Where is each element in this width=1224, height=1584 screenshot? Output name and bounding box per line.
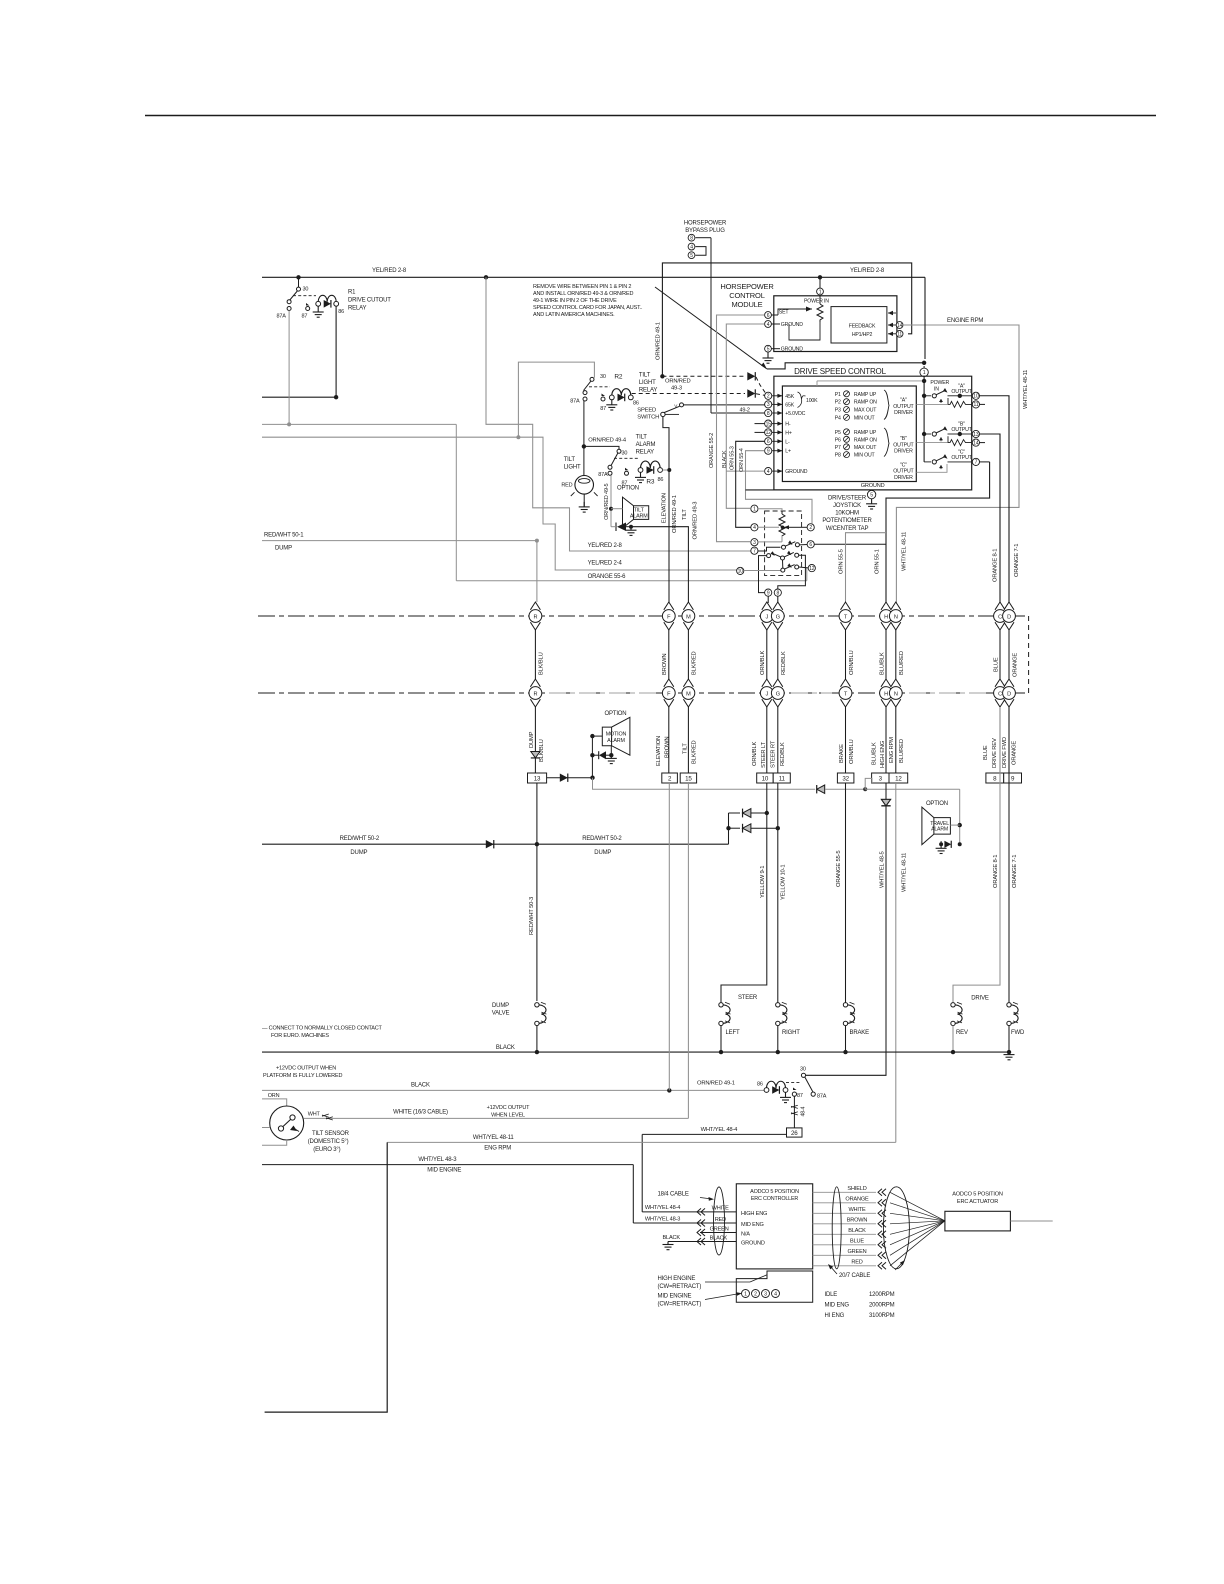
svg-text:7: 7 xyxy=(753,549,756,555)
terminal box 15 xyxy=(680,773,696,783)
page top rule xyxy=(145,115,1156,117)
wire ERC WHITE xyxy=(813,1212,876,1214)
svg-text:OUTPUT: OUTPUT xyxy=(951,427,972,433)
svg-text:86: 86 xyxy=(757,1082,763,1088)
wire WHT/YEL 48-4 into box 26 xyxy=(642,1133,786,1135)
node ORN/RED 49-4 xyxy=(582,444,586,448)
svg-text:DUMP: DUMP xyxy=(529,731,535,748)
svg-text:6: 6 xyxy=(809,542,812,548)
svg-text:BLUE: BLUE xyxy=(983,745,989,760)
harness row 1 dash-dot line xyxy=(258,615,1029,617)
svg-text:15: 15 xyxy=(766,421,772,427)
svg-text:TILT: TILT xyxy=(564,457,576,463)
svg-text:"A": "A" xyxy=(900,398,907,404)
svg-text:WHT/YEL 48-11: WHT/YEL 48-11 xyxy=(473,1135,515,1141)
svg-text:N: N xyxy=(894,614,898,620)
svg-text:GROUND: GROUND xyxy=(785,469,807,475)
svg-text:WHT/YEL 48-5: WHT/YEL 48-5 xyxy=(879,851,885,888)
svg-text:DUMP: DUMP xyxy=(275,546,292,552)
pin 12 DSC xyxy=(765,429,772,436)
pin 4 HP (GROUND) xyxy=(765,321,772,328)
svg-text:VALVE: VALVE xyxy=(492,1011,510,1017)
pin 6 HP (SET) xyxy=(765,312,772,319)
connector T row2 xyxy=(841,679,851,687)
svg-text:ORANGE: ORANGE xyxy=(1012,741,1018,765)
svg-text:TILT: TILT xyxy=(682,509,688,520)
diode H wire xyxy=(881,799,890,805)
wire N down to eng rpm line xyxy=(895,783,897,1142)
connector G row2 xyxy=(773,679,783,687)
svg-text:LEFT: LEFT xyxy=(726,1030,740,1036)
svg-text:YEL/RED 2-8: YEL/RED 2-8 xyxy=(588,543,623,549)
svg-text:WHT/YEL 48-11: WHT/YEL 48-11 xyxy=(902,853,908,892)
svg-text:POWER: POWER xyxy=(930,380,949,386)
output C circle 7 xyxy=(972,458,979,465)
svg-text:J: J xyxy=(765,691,768,697)
node option rail / terminal3 xyxy=(863,787,867,791)
svg-text:MAX OUT: MAX OUT xyxy=(854,408,877,414)
feedback in arrows xyxy=(888,312,896,314)
connector H row2 xyxy=(881,679,891,687)
svg-text:(EURO 3°): (EURO 3°) xyxy=(313,1147,340,1153)
resistor A feedback xyxy=(948,401,972,407)
svg-text:20/7 CABLE: 20/7 CABLE xyxy=(839,1273,870,1279)
steer left coil xyxy=(719,1003,723,1007)
svg-text:OUTPUT: OUTPUT xyxy=(893,442,914,448)
terminal box 8 9 xyxy=(986,773,1004,783)
svg-text:R1: R1 xyxy=(348,290,356,296)
svg-text:RED: RED xyxy=(851,1260,862,1266)
node junction bus x486 xyxy=(484,275,488,279)
svg-text:6: 6 xyxy=(767,313,770,319)
svg-text:BLACK: BLACK xyxy=(710,1235,728,1241)
svg-text:G: G xyxy=(776,614,780,620)
brace B group xyxy=(884,428,889,457)
svg-text:DUMP: DUMP xyxy=(594,850,611,856)
svg-text:BLACK: BLACK xyxy=(496,1045,515,1051)
svg-text:CONTROL: CONTROL xyxy=(729,291,764,300)
pin 3 DSC xyxy=(765,401,772,408)
svg-text:— CONNECT TO NORMALLY CLOSED C: — CONNECT TO NORMALLY CLOSED CONTACT xyxy=(262,1026,383,1032)
svg-text:15: 15 xyxy=(685,775,692,782)
drive speed control inner box xyxy=(782,386,916,482)
svg-text:14: 14 xyxy=(897,323,903,329)
svg-text:(CW=RETRACT): (CW=RETRACT) xyxy=(658,1284,702,1290)
svg-text:ORN/RED 49-3: ORN/RED 49-3 xyxy=(692,502,698,540)
svg-text:ORN/RED 49-4: ORN/RED 49-4 xyxy=(588,438,627,444)
svg-text:DRIVER: DRIVER xyxy=(894,449,913,455)
svg-text:"B": "B" xyxy=(900,436,907,442)
wire pin4 to pot wiper xyxy=(758,526,779,528)
terminal box 32 xyxy=(837,773,854,783)
svg-text:N: N xyxy=(894,691,898,697)
wire ENGINE RPM from pin14 xyxy=(896,325,1019,603)
svg-text:P7: P7 xyxy=(835,445,841,451)
svg-text:FWD: FWD xyxy=(1011,1030,1025,1036)
svg-text:9: 9 xyxy=(767,590,770,596)
wires row2 down to terminal boxes xyxy=(534,707,536,773)
svg-text:BLACK: BLACK xyxy=(848,1228,866,1234)
diode steer left xyxy=(743,809,751,818)
svg-text:RED: RED xyxy=(715,1217,726,1223)
svg-text:OUTPUT: OUTPUT xyxy=(893,469,914,475)
svg-text:P4: P4 xyxy=(835,415,841,421)
connector F row1 xyxy=(664,602,674,610)
wire joystick6 from H-driver xyxy=(814,543,886,545)
svg-text:BLACK: BLACK xyxy=(411,1082,430,1088)
connector N row2 xyxy=(891,679,901,687)
svg-text:12: 12 xyxy=(766,430,772,436)
svg-text:WHT: WHT xyxy=(308,1112,321,1118)
svg-text:87A: 87A xyxy=(570,398,580,404)
svg-text:RELAY: RELAY xyxy=(348,306,367,312)
svg-text:D: D xyxy=(1007,614,1011,620)
svg-text:SPEED CONTROL CARD FOR JAPAN,: SPEED CONTROL CARD FOR JAPAN, AUST.. xyxy=(533,305,643,311)
svg-text:G: G xyxy=(776,691,780,697)
ground motion alarm xyxy=(606,755,617,763)
svg-text:ORN/RED 49-1: ORN/RED 49-1 xyxy=(672,495,678,533)
svg-text:8: 8 xyxy=(776,590,779,596)
svg-text:ENGINE RPM: ENGINE RPM xyxy=(947,318,983,324)
terminal box 3 12 xyxy=(872,773,889,783)
wire box13 to motion alarm xyxy=(547,777,593,779)
svg-text:GROUND: GROUND xyxy=(861,483,885,489)
svg-text:ORN 55-5: ORN 55-5 xyxy=(839,549,845,574)
svg-text:POTENTIOMETER: POTENTIOMETER xyxy=(822,518,872,524)
svg-text:BLACK: BLACK xyxy=(722,450,728,468)
harness row right dashed jog xyxy=(1028,616,1030,693)
node dump junction xyxy=(535,842,539,846)
joystick pin 10 xyxy=(737,567,744,574)
pin 15/12 stubs xyxy=(755,423,765,425)
svg-text:RED/BLK: RED/BLK xyxy=(780,742,786,766)
joystick pin 12 xyxy=(808,565,815,572)
ground R3 xyxy=(635,472,646,482)
svg-text:OPTION: OPTION xyxy=(926,801,948,807)
cable ellipse right pair xyxy=(832,1187,841,1269)
svg-text:5: 5 xyxy=(870,492,873,498)
svg-text:LIGHT: LIGHT xyxy=(639,380,656,386)
svg-text:49-1 WIRE IN PIN 2 OF THE DRIV: 49-1 WIRE IN PIN 2 OF THE DRIVE xyxy=(533,298,617,304)
svg-text:ELEVATION: ELEVATION xyxy=(662,493,668,523)
svg-text:2: 2 xyxy=(754,1292,757,1298)
joystick potentiometer xyxy=(779,514,785,539)
svg-text:OPTION: OPTION xyxy=(605,711,627,717)
ground R1 xyxy=(313,306,324,317)
wire ERC ORANGE xyxy=(813,1202,876,1204)
svg-text:5: 5 xyxy=(690,253,693,259)
wire pin1 to pot top xyxy=(758,509,782,511)
svg-text:ORN/BLK: ORN/BLK xyxy=(752,741,758,766)
wire to lower diode xyxy=(729,827,741,829)
wire travel alarm feed xyxy=(959,789,961,844)
wire H down to bottom relay xyxy=(885,783,887,799)
svg-text:10: 10 xyxy=(762,775,769,782)
pin 5 HP (GROUND) xyxy=(765,345,772,352)
feedback box HP1/HP2 xyxy=(831,307,887,343)
svg-text:ORN 55-4: ORN 55-4 xyxy=(739,448,745,472)
wire M down to tilt sensor xyxy=(687,783,689,1118)
svg-text:YELLOW 9-1: YELLOW 9-1 xyxy=(760,866,766,898)
svg-text:86: 86 xyxy=(338,309,344,315)
pin 4 DSC xyxy=(765,468,772,475)
node speed relay branch xyxy=(516,435,520,439)
svg-text:RELAY: RELAY xyxy=(636,450,655,456)
svg-text:TILT: TILT xyxy=(636,435,648,441)
svg-text:ORANGE 7-1: ORANGE 7-1 xyxy=(1012,855,1018,888)
pin 15 DSC xyxy=(765,420,772,427)
bottom relay coil xyxy=(767,1081,786,1088)
svg-text:1: 1 xyxy=(923,370,926,376)
svg-text:65K: 65K xyxy=(785,402,794,408)
svg-text:MIN OUT: MIN OUT xyxy=(854,415,876,421)
svg-text:13: 13 xyxy=(534,775,541,782)
svg-text:3100RPM: 3100RPM xyxy=(869,1313,895,1319)
wire output10 down to D connector xyxy=(1008,396,1009,603)
ground BLACK bus xyxy=(1007,1050,1011,1054)
svg-text:1: 1 xyxy=(753,507,756,513)
connector R row2 xyxy=(530,679,540,687)
svg-text:ORANGE 55-2: ORANGE 55-2 xyxy=(709,433,715,468)
wire 49-2 speed switch to pin3 xyxy=(684,404,765,406)
pin 8 DSC xyxy=(765,409,772,416)
svg-text:P1: P1 xyxy=(835,392,841,398)
wire output13 down to C connector xyxy=(999,434,1002,603)
wire to R1-86 from left margin xyxy=(262,396,336,398)
svg-text:WHT/YEL 48-3: WHT/YEL 48-3 xyxy=(418,1157,457,1163)
svg-text:STEER: STEER xyxy=(738,995,758,1001)
svg-text:13: 13 xyxy=(973,432,979,438)
svg-text:BRAKE: BRAKE xyxy=(850,1030,870,1036)
fan wires to actuator xyxy=(890,1192,945,1221)
svg-text:GREEN: GREEN xyxy=(710,1226,729,1232)
svg-text:4: 4 xyxy=(753,525,756,531)
note leader diagonal xyxy=(655,287,767,369)
diode after box13 xyxy=(560,774,568,782)
DSC power rail xyxy=(923,377,925,462)
wire J yellow9-1 down to steer left xyxy=(721,783,767,1003)
svg-text:TILT SENSOR: TILT SENSOR xyxy=(312,1131,350,1137)
horsepower control module box U-HP xyxy=(774,296,897,352)
drive fwd coil xyxy=(1007,1003,1011,1007)
svg-text:ORN/RED 49-1: ORN/RED 49-1 xyxy=(697,1081,735,1087)
svg-text:BLK/RED: BLK/RED xyxy=(692,740,698,764)
wire dump valve drop xyxy=(536,783,538,1001)
svg-text:86: 86 xyxy=(633,401,639,407)
brake coil xyxy=(843,1003,847,1007)
connector M row1 xyxy=(683,602,693,610)
wire pin9/pin8 to connectors J G xyxy=(767,596,769,603)
svg-text:DRIVE: DRIVE xyxy=(971,996,989,1002)
svg-text:WHT/YEL 48-4: WHT/YEL 48-4 xyxy=(645,1205,680,1211)
svg-text:WHT/YEL 48-11: WHT/YEL 48-11 xyxy=(902,532,908,571)
terminal box 26 xyxy=(787,1128,803,1137)
svg-text:1: 1 xyxy=(744,1292,747,1298)
svg-text:DRIVE CUTOUT: DRIVE CUTOUT xyxy=(348,298,391,304)
row2 grey dash overlay segments xyxy=(549,692,656,694)
svg-text:87A: 87A xyxy=(277,314,287,320)
svg-text:4: 4 xyxy=(690,244,693,250)
svg-text:OPTION: OPTION xyxy=(617,485,639,491)
svg-text:DRIVER: DRIVER xyxy=(894,410,913,416)
svg-text:STEER RT: STEER RT xyxy=(771,740,777,768)
svg-text:MID ENG: MID ENG xyxy=(741,1222,764,1228)
wires DSC outputs to right xyxy=(980,395,1009,397)
resistor B feedback xyxy=(948,440,972,446)
wire BLACK module gnd to joystick1 xyxy=(726,324,764,508)
svg-text:BLU/BLK: BLU/BLK xyxy=(871,742,877,765)
svg-text:30: 30 xyxy=(800,1067,806,1073)
svg-text:ENG RPM: ENG RPM xyxy=(484,1145,511,1151)
joystick pin 7 xyxy=(751,547,758,554)
wire pot bottom to pin3 line xyxy=(781,536,783,542)
svg-text:M: M xyxy=(686,691,691,697)
svg-text:HORSEPOWER: HORSEPOWER xyxy=(720,282,774,291)
connector C row1 xyxy=(995,602,1005,610)
svg-text:FEEDBACK: FEEDBACK xyxy=(849,324,876,330)
svg-text:86: 86 xyxy=(658,477,664,483)
svg-text:WHITE (16/3 CABLE): WHITE (16/3 CABLE) xyxy=(393,1109,448,1115)
svg-text:OUTPUT: OUTPUT xyxy=(951,389,972,395)
diode R3 xyxy=(647,466,654,474)
svg-text:12: 12 xyxy=(895,775,902,782)
svg-text:ORANGE 55-5: ORANGE 55-5 xyxy=(836,851,842,887)
svg-text:WHT/YEL 48-3: WHT/YEL 48-3 xyxy=(645,1217,680,1223)
svg-text:L-: L- xyxy=(785,439,790,445)
harness row 2 dash-dot line xyxy=(258,692,1029,694)
svg-text:+12VDC OUTPUT: +12VDC OUTPUT xyxy=(487,1105,531,1111)
travel alarm bottom diode/ground xyxy=(939,842,943,846)
svg-text:BLUE: BLUE xyxy=(850,1239,864,1245)
connector T row1 xyxy=(841,602,851,610)
connector J row2 xyxy=(762,679,772,687)
wires between rows xyxy=(534,630,536,679)
svg-text:M: M xyxy=(686,614,691,620)
ground HP pin5 xyxy=(767,352,769,358)
svg-text:TILT: TILT xyxy=(639,372,651,378)
wire ERC SHIELD xyxy=(813,1191,876,1193)
svg-text:11: 11 xyxy=(897,332,902,338)
connector C row2 xyxy=(995,679,1005,687)
wire YEL/RED 2-8 top bus xyxy=(262,276,925,278)
svg-text:32: 32 xyxy=(842,775,849,782)
svg-text:30: 30 xyxy=(303,287,309,293)
wire T orange55-5 down to brake xyxy=(845,783,847,1003)
svg-text:P8: P8 xyxy=(835,453,841,459)
wire steer diode feed xyxy=(728,813,730,844)
svg-text:RED/WHT 50-2: RED/WHT 50-2 xyxy=(582,836,622,842)
wire terminal3 branch xyxy=(865,778,872,789)
potentiometer HP set xyxy=(817,304,823,322)
brace 100K xyxy=(798,392,806,408)
svg-text:RAMP UP: RAMP UP xyxy=(854,392,877,398)
svg-text:DRIVE FWD: DRIVE FWD xyxy=(1002,737,1008,768)
node steer feed upper xyxy=(729,812,741,814)
ground ERC xyxy=(663,1242,674,1250)
svg-text:ELEVATION: ELEVATION xyxy=(656,736,662,766)
svg-text:D: D xyxy=(1007,691,1011,697)
svg-text:GREEN: GREEN xyxy=(848,1249,867,1255)
svg-text:GROUND: GROUND xyxy=(781,322,803,328)
svg-text:WHEN LEVEL: WHEN LEVEL xyxy=(491,1113,525,1119)
svg-text:ORN/BLK: ORN/BLK xyxy=(760,650,766,675)
connector F row2 xyxy=(664,679,674,687)
connector N row1 xyxy=(891,602,901,610)
svg-text:BYPASS PLUG: BYPASS PLUG xyxy=(685,228,725,234)
svg-text:C: C xyxy=(998,614,1002,620)
svg-text:RAMP ON: RAMP ON xyxy=(854,437,877,443)
svg-text:RED/WHT 50-3: RED/WHT 50-3 xyxy=(529,897,535,935)
svg-text:BLK/BLU: BLK/BLU xyxy=(538,652,544,675)
svg-text:12: 12 xyxy=(809,566,815,572)
svg-text:IDLE: IDLE xyxy=(825,1292,838,1298)
svg-text:30: 30 xyxy=(600,374,606,380)
svg-text:GROUND: GROUND xyxy=(741,1241,765,1247)
svg-text:87: 87 xyxy=(600,406,606,412)
svg-text:87: 87 xyxy=(797,1093,803,1099)
svg-text:H: H xyxy=(884,691,888,697)
connector M row2 xyxy=(683,679,693,687)
DSC box corner stub xyxy=(746,489,774,491)
diode option rail xyxy=(817,785,825,793)
svg-text:YEL/RED 2-8: YEL/RED 2-8 xyxy=(372,268,407,274)
svg-text:H: H xyxy=(884,614,888,620)
svg-text:BLU/RED: BLU/RED xyxy=(899,739,905,763)
wire YEL/RED 2-8 bus to joystick7 xyxy=(486,277,751,551)
wire output7 to H connector xyxy=(886,462,990,603)
svg-text:18/4 CABLE: 18/4 CABLE xyxy=(658,1191,689,1197)
ERC actuator box xyxy=(945,1211,1011,1231)
transistor switch B xyxy=(922,432,926,436)
pin 14 HP xyxy=(896,322,903,329)
wire WHT/YEL 48-4 vertical xyxy=(641,1134,643,1212)
svg-text:LIGHT: LIGHT xyxy=(564,465,581,471)
svg-text:48-4: 48-4 xyxy=(801,1107,807,1117)
svg-text:ORANGE: ORANGE xyxy=(1013,653,1019,677)
svg-text:ORANGE: ORANGE xyxy=(845,1197,869,1203)
svg-text:9: 9 xyxy=(767,449,770,455)
wire T connector up (ORN 55-5) xyxy=(846,533,887,603)
wire ORN 55-3 DSC L- to joystick4 xyxy=(736,441,765,527)
svg-text:P5: P5 xyxy=(835,430,841,436)
transistor switch A xyxy=(922,394,926,398)
wire ERC RED xyxy=(813,1265,876,1267)
wire ORN/RED 49-1 loop from HP pin 11 xyxy=(662,263,911,376)
svg-text:4: 4 xyxy=(767,322,770,328)
wire RED/WHT 50-2 xyxy=(262,843,729,845)
svg-text:BROWN: BROWN xyxy=(665,737,671,758)
svg-text:AND LATIN AMERICA MACHINES.: AND LATIN AMERICA MACHINES. xyxy=(533,312,615,318)
motion alarm speaker (horn opens right) xyxy=(602,717,630,755)
relay R1 coil xyxy=(318,295,336,301)
svg-text:87A: 87A xyxy=(817,1094,827,1100)
svg-text:STEER LT: STEER LT xyxy=(761,742,767,768)
svg-text:+5.0VDC: +5.0VDC xyxy=(785,411,805,417)
svg-text:ORANGE 7-1: ORANGE 7-1 xyxy=(1014,544,1020,577)
ground bottom relay xyxy=(780,1092,791,1102)
wire black/orn-red 49-1 to relay xyxy=(262,1089,767,1091)
wire row2 right contact to pin8 xyxy=(778,555,806,589)
node yellow 9-1 xyxy=(765,811,769,815)
connector D row2 xyxy=(1004,679,1014,687)
wire ERC BROWN xyxy=(813,1223,876,1225)
svg-text:10: 10 xyxy=(973,394,979,400)
wire ORN/RED 49-4 to R3-30 xyxy=(584,446,619,449)
svg-text:HI ENG: HI ENG xyxy=(825,1313,845,1319)
svg-text:PLATFORM IS FULLY LOWERED: PLATFORM IS FULLY LOWERED xyxy=(263,1073,342,1079)
svg-text:4: 4 xyxy=(767,469,770,475)
node F termination xyxy=(667,1088,671,1092)
